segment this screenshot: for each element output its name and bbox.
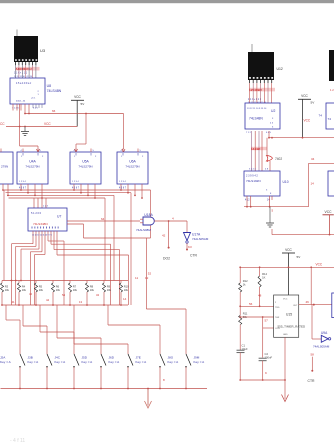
faint caption [10,438,25,444]
svg-text:C1: C1 [242,343,246,347]
svg-text:41: 41 [12,300,16,304]
U7 inner top text [31,211,42,215]
svg-text:48: 48 [258,294,262,298]
svg-text:Key = A: Key = A [136,360,148,364]
VCC tap down node [323,210,334,236]
svg-text:Key = A: Key = A [109,360,121,364]
inverter output stub [186,243,188,250]
blue pin numbers under U12 [248,98,267,104]
ground below VCC wire [21,127,29,136]
wire rail low [239,325,241,350]
svg-text:4 5 6 7: 4 5 6 7 [72,188,80,190]
svg-text:74LS279N: 74LS279N [25,165,39,169]
svg-text:1 2 3 4: 1 2 3 4 [119,181,126,183]
bus wire 1 [4,189,151,191]
svg-text:1 2 3 4: 1 2 3 4 [19,181,26,183]
svg-text:U17A: U17A [192,233,201,237]
power VCC 5V node (right top) [298,94,315,138]
VCC wire from U2 [268,131,334,139]
net label VCC red (right) [304,119,311,123]
label 7402 [275,157,282,161]
svg-text:14: 14 [311,182,315,186]
blue pin numbers under U3 [14,72,33,78]
resistor R3 10k [0,281,9,306]
wire vertical x114 [113,195,115,280]
svg-text:42: 42 [162,234,166,238]
red pin labels under U12 [249,88,275,92]
net label 34b [96,293,100,297]
svg-text:R10: R10 [124,284,129,288]
net label 14 [311,182,315,186]
svg-text:555_TIMER_RATED: 555_TIMER_RATED [278,324,306,328]
wire 7402 stub [267,138,270,171]
svg-text:U8: U8 [47,84,52,88]
svg-text:100nF: 100nF [265,356,273,360]
net label 64 [101,217,105,221]
svg-text:10k: 10k [5,288,10,292]
U7 input pin numbers [43,206,49,208]
key switch J9M [185,346,205,389]
latch output stubs to bus [2,184,143,199]
main ground arrow [145,388,152,408]
svg-text:R6: R6 [56,284,60,288]
blue pin numbers above U10 [249,169,269,171]
resistor top rail [2,280,128,282]
svg-text:74: 74 [319,114,323,118]
net label VCC red (555) [316,263,323,267]
svg-text:R3: R3 [5,284,9,288]
key switch J4C [46,346,66,389]
svg-text:4 12: 4 12 [245,200,250,202]
svg-text:C2: C2 [265,352,269,356]
svg-text:74LS48N: 74LS48N [249,117,263,121]
arrow into U4A pin [37,149,40,152]
svg-text:10k: 10k [124,288,129,292]
bottom ground bus [1,388,208,390]
inverter U9A [321,335,331,342]
svg-text:1 2 3: 1 2 3 [43,206,49,208]
svg-text:U6A: U6A [129,160,136,164]
svg-text:54: 54 [62,293,66,297]
net label 42 (middle) [162,234,166,238]
wire gate input from U7 [67,220,140,222]
decoder (edge fragment) box [319,103,334,129]
net label 11 [135,276,138,280]
svg-text:U7: U7 [57,215,61,219]
bus left drop to R column [3,190,5,281]
svg-text:VCC: VCC [316,263,323,267]
label 74ALS05AM [192,237,209,241]
red pin labels above U10 [251,147,267,151]
timer U15 box [274,295,299,337]
wire rail mid [239,292,241,315]
wires below U8 [13,104,42,127]
key switch J2A (cut at left) [0,356,12,364]
latch U5A box [70,149,101,185]
svg-text:34: 34 [96,293,100,297]
svg-text:R5: R5 [39,284,43,288]
svg-text:74ALS05AM: 74ALS05AM [192,237,209,241]
svg-text:42: 42 [29,292,33,296]
svg-text:CC: CC [0,122,5,126]
wire vertical x105 [104,198,106,281]
7-seg display U3 [14,36,38,65]
svg-text:R8: R8 [90,284,94,288]
net label 4 [172,217,174,221]
counter bus wire [244,206,309,208]
svg-text:K3: K3 [188,245,192,249]
555 ground bus [239,379,286,381]
svg-text:VCC: VCC [44,122,51,126]
label U3 [40,48,46,53]
U7 output stubs [33,231,57,238]
svg-text:U10: U10 [283,180,289,184]
net label 66 [52,109,56,113]
svg-text:U5A: U5A [82,160,89,164]
svg-text:10k: 10k [39,288,44,292]
VCC rail 555 [239,266,334,268]
svg-text:U4A: U4A [29,160,36,164]
U2 inner right pins [270,118,274,129]
resistor R10 10k [119,281,129,306]
svg-text:Key = A: Key = A [0,360,12,364]
svg-text:VCC: VCC [325,210,333,214]
svg-text:U18A: U18A [144,213,153,217]
net label 56 [249,302,253,306]
svg-text:10k: 10k [56,288,61,292]
node label DO2 [163,257,170,261]
label U7 [57,215,61,219]
key switch J8G [159,346,179,389]
net label 9 [265,371,267,375]
U7 inner bottom ticks [32,227,58,229]
svg-text:DO2: DO2 [163,257,170,261]
svg-text:10k: 10k [22,288,27,292]
wire stub above display U12 [251,44,253,52]
U8 inner top pin numbers [16,82,32,85]
wire drop to U5A [76,113,87,149]
svg-text:U3: U3 [40,48,46,53]
capacitor C1 10uF [237,343,248,380]
svg-text:7 1 2: 7 1 2 [246,132,252,134]
ground below U10 [266,207,274,227]
key switch J3B [19,346,39,389]
svg-text:R11: R11 [243,311,248,315]
label U17A [192,233,201,237]
gate 7402 symbol [267,156,273,162]
AND gate output wire [154,220,187,232]
svg-text:Key = A: Key = A [55,360,67,364]
svg-text:5 1 2 0 0: 5 1 2 0 0 [31,211,42,215]
bus wire 3 [7,194,114,196]
wire THR [239,316,273,318]
svg-text:13 12 11 10 9 15 14: 13 12 11 10 9 15 14 [247,108,267,110]
inverter U9A input wire [312,305,321,339]
svg-text:7402: 7402 [275,157,282,161]
svg-text:CTR: CTR [190,254,198,258]
node label CTR (right) [308,379,316,383]
label U2 [271,109,275,113]
arrow into U5A pin [75,149,78,152]
capacitor C2 100nF [259,352,273,380]
wire TRG [239,305,273,307]
key switch J5D [73,346,93,389]
svg-text:13: 13 [79,300,83,304]
svg-text:1 1 C+ 1 1 1: 1 1 C+ 1 1 1 [248,98,262,101]
U15 inner pin labels [275,299,298,337]
svg-text:10k: 10k [107,288,112,292]
svg-text:74LS348N: 74LS348N [33,222,48,226]
svg-text:57: 57 [265,319,269,323]
svg-text:5 1 2 3: 5 1 2 3 [249,169,256,171]
svg-text:Key = A: Key = A [168,360,180,364]
U8 bottom pin numbers [12,108,39,110]
resistor R14 1K [258,267,268,306]
red label fragment right edge [330,88,334,92]
svg-text:279N: 279N [1,165,8,169]
staircase wires to key switches [6,305,160,346]
svg-text:74LS48N: 74LS48N [47,89,62,93]
wires U12 to U2 [250,83,272,103]
label U10 [283,180,289,184]
edge box at OUT [332,293,334,318]
svg-text:VCC: VCC [285,248,292,252]
U10 output stubs [247,196,272,207]
svg-text:46: 46 [306,300,310,304]
U10 bottom pin numbers [245,200,270,202]
svg-text:Key = A: Key = A [28,360,40,364]
net label 52 [148,272,152,276]
svg-text:Key = A: Key = A [82,360,94,364]
net label 8 [163,378,165,382]
net label 5 [272,209,274,213]
net label 54 [62,293,66,297]
svg-text:10k: 10k [73,288,78,292]
power VCC 5V node (left) [71,95,85,126]
net label VCC red (left) [44,122,51,126]
net label 48 [258,294,262,298]
key switch J6D [100,346,120,389]
svg-text:TRG: TRG [275,307,280,309]
svg-text:74ALS05AM: 74ALS05AM [313,345,330,349]
wire stub above display U3 [16,30,18,37]
svg-text:74: 74 [328,117,332,121]
resistor R6 10k [51,281,60,306]
encoder U7 box [28,208,67,231]
U10 inner top text [246,175,258,178]
7-seg display U12 [248,52,274,83]
U7 input stubs [34,198,46,208]
svg-text:R4: R4 [22,284,26,288]
svg-text:74LS279N: 74LS279N [125,165,139,169]
label U18A [144,213,153,217]
top gray border bar [0,0,334,3]
svg-text:74ALS08M: 74ALS08M [136,228,151,232]
latch (partial left edge) box [0,149,13,185]
label 555_TIMER_RATED [278,324,306,328]
svg-text:VCC: VCC [301,94,308,98]
wire VCC horizontal [6,126,77,128]
svg-text:74LS192N: 74LS192N [246,179,261,183]
svg-text:R12: R12 [243,279,248,283]
svg-text:2 3 9 9 4 2: 2 3 9 9 4 2 [246,175,258,178]
label 74ALS05AM (right) [313,345,330,349]
net label K3 [188,245,192,249]
svg-text:1K: 1K [262,276,265,280]
svg-text:1 2: 1 2 [330,88,334,92]
net label 41 [12,300,16,304]
net label fragment left edge [0,122,5,126]
U7 fan-out wires to resistor columns [12,238,129,305]
bus wire 4 [9,197,106,199]
svg-text:VCC: VCC [74,95,81,99]
7-seg display U13 (edge fragment) [329,50,334,81]
net label 57 [265,319,269,323]
U7 output pin numbers [32,235,52,237]
AND gate U18A [140,217,154,225]
arrow into U6A pin [122,149,125,152]
U15 ground wire [284,337,286,399]
wire DO2 drop [168,221,170,249]
svg-text:12: 12 [145,276,149,280]
net label 12 [145,276,149,280]
wire y234 horizontal [272,229,334,235]
net label 13 [79,300,83,304]
svg-text:U15: U15 [286,313,292,317]
key switch J7E [127,346,147,389]
wire drop to U6A [123,114,125,150]
U2 inner label 74LS48N [249,117,263,121]
U2 bottom pin numbers [246,132,272,134]
svg-text:OUT: OUT [293,305,298,307]
svg-text:4 5 6 7: 4 5 6 7 [19,188,27,190]
svg-text:GND: GND [283,334,288,336]
svg-text:4 5 a 4 9 9 a J: 4 5 a 4 9 9 a J [16,82,32,85]
svg-text:R14: R14 [262,272,267,276]
label U8 74LS48N [47,84,62,93]
svg-text:34: 34 [311,157,315,161]
bus wire 2 [6,192,132,194]
svg-text:52: 52 [148,272,152,276]
label U12 [277,67,283,71]
wire CTR stub [311,357,313,372]
svg-text:VCC: VCC [304,119,311,123]
net label 14b [123,297,127,301]
svg-text:11: 11 [135,276,138,280]
wire jog to key switches [146,238,186,346]
svg-text:44: 44 [46,298,50,302]
net label 58 [311,353,315,357]
resistor R11 50k [239,311,248,324]
555 ground arrow [282,395,289,402]
svg-text:VCC: VCC [283,299,288,301]
resistor R5 10k [34,281,43,306]
wires U3 to U8 [16,65,36,78]
label U15 [286,313,292,317]
inverter U17A [184,233,191,244]
counter (edge fragment) box [328,171,334,196]
wire right loop [309,163,334,206]
label 74ALS08M [136,228,151,232]
resistor bottom rail [1,304,128,306]
svg-text:1 2 3 4: 1 2 3 4 [72,181,79,183]
svg-text:58: 58 [311,353,315,357]
svg-text:Key = A: Key = A [194,360,206,364]
svg-text:66: 66 [52,109,56,113]
U10 inner bottom text [266,190,272,196]
U7 inner label 74LS348N [33,222,48,226]
net label 34 [311,157,315,161]
pass-through dots [11,280,22,282]
resistor R9 10k [102,281,111,306]
latch U4A box [17,149,48,185]
wire drop to U4A [20,127,38,150]
svg-text:74LS279N: 74LS279N [78,165,92,169]
power VCC 5V node (555) [282,248,301,295]
wire drop x150 [150,190,152,238]
wire lower jog from U7 [67,224,151,238]
svg-text:15 14 13 12 11 10 9 7 6: 15 14 13 12 11 10 9 7 6 [32,235,52,237]
node label CTR [190,254,198,258]
counter U10 box [244,171,280,196]
svg-text:U12: U12 [277,67,283,71]
U8 inner bottom pin text [16,91,40,103]
wires U2 down to U10 [252,131,263,171]
latch pin numbers below boxes [19,188,127,190]
wire VCC to OUT node [310,267,312,304]
svg-text:14: 14 [123,297,127,301]
svg-text:64: 64 [101,217,105,221]
svg-text:10k: 10k [90,288,95,292]
svg-text:- 4 f 11: - 4 f 11 [10,438,25,444]
decoder U2 box [245,103,280,129]
label U9A [321,331,328,335]
resistor R12 1k [239,267,249,292]
svg-text:13 12 11 10 9 15 14: 13 12 11 10 9 15 14 [14,76,33,78]
svg-text:THR: THR [275,317,280,319]
wire net 66 horizontal [24,113,123,115]
wire CON [262,316,274,357]
net label 44b [46,298,50,302]
svg-text:R7: R7 [73,284,77,288]
OUT wire [299,304,334,306]
svg-text:CTR: CTR [308,379,316,383]
wire vertical x131 [130,193,132,305]
net label 46 [306,300,310,304]
svg-text:U9A: U9A [321,331,328,335]
resistor R4 10k [17,281,26,306]
red pin labels under U3 [16,67,40,71]
U2 inner top pin numbers [247,108,267,110]
decoder U8 box [10,78,45,104]
resistor R7 10k [68,281,77,306]
svg-text:56: 56 [249,302,253,306]
net label 44a [29,292,33,296]
svg-text:4 5 6 7: 4 5 6 7 [119,188,127,190]
latch U6A box [117,149,148,185]
svg-text:4004 - 44: 4004 - 44 [16,101,26,103]
svg-text:R9: R9 [107,284,111,288]
U10 inner label 74LS192N [246,179,261,183]
svg-text:U2: U2 [271,109,275,113]
resistor R8 10k [85,281,94,306]
